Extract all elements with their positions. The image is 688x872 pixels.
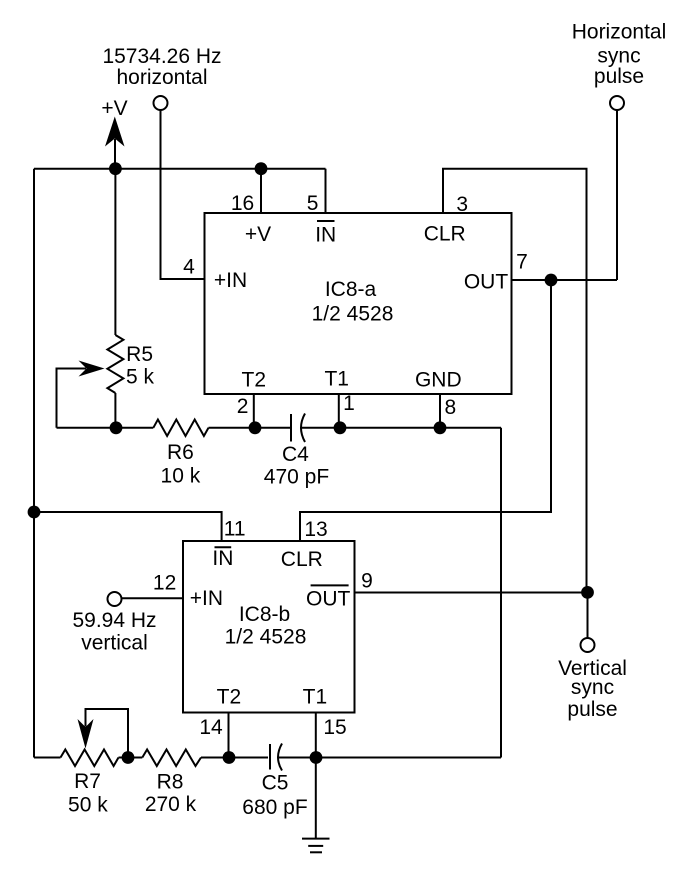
- svg-text:R8: R8: [157, 770, 184, 793]
- R7 wiper arrow: [78, 709, 129, 758]
- junction: pin 8: [434, 421, 447, 434]
- IC IC8-b: 1/2 4528 monostable: [183, 541, 355, 713]
- wire: pin 15 drop: [315, 713, 317, 758]
- resistor R5 (potentiometer): [107, 169, 123, 428]
- svg-text:4: 4: [183, 256, 195, 279]
- junction: pin 14: [223, 751, 236, 764]
- svg-text:1/2 4528: 1/2 4528: [312, 303, 394, 326]
- wire: horizontal input to pin 4: [161, 110, 204, 279]
- svg-text:GND: GND: [415, 368, 462, 391]
- svg-text:C5: C5: [262, 772, 289, 795]
- wire: +V rail: [34, 168, 326, 170]
- junction: pin 2: [249, 421, 262, 434]
- svg-text:Horizontal: Horizontal: [572, 21, 667, 44]
- wire: OUT pin 7 to horizontal sync: [512, 110, 618, 281]
- svg-text:sync: sync: [571, 676, 614, 699]
- svg-text:IC8-a: IC8-a: [325, 278, 377, 301]
- svg-text:IN: IN: [315, 224, 336, 247]
- svg-text:CLR: CLR: [281, 548, 323, 571]
- node: horizontal sync pulse label: [572, 21, 667, 89]
- wire: pin 5 drop: [325, 169, 327, 214]
- wire: timing net (T2/T1/GND row): [57, 428, 502, 758]
- svg-text:IC8-b: IC8-b: [239, 603, 290, 626]
- svg-text:vertical: vertical: [81, 632, 148, 655]
- svg-text:+V: +V: [101, 97, 127, 120]
- svg-text:9: 9: [361, 570, 373, 593]
- junction: OUT pin 7: [545, 274, 558, 287]
- svg-text:3: 3: [456, 193, 468, 216]
- svg-text:pulse: pulse: [594, 65, 644, 88]
- power +V symbol: [101, 97, 127, 169]
- svg-text:7: 7: [516, 250, 528, 273]
- svg-text:5: 5: [307, 192, 319, 215]
- junction: +V rail / pin 16: [255, 162, 268, 175]
- svg-text:horizontal: horizontal: [116, 66, 207, 89]
- svg-text:+V: +V: [245, 223, 271, 246]
- svg-text:10 k: 10 k: [161, 465, 201, 488]
- junction: pin 15: [310, 751, 323, 764]
- wire: vertical input to pin 12: [121, 597, 183, 599]
- junction: pin 1: [334, 421, 347, 434]
- terminal: horizontal sync pulse: [610, 96, 624, 110]
- svg-text:OUT: OUT: [464, 271, 509, 294]
- wire: bottom timing net: [34, 757, 501, 759]
- wire: left vertical bus: [33, 169, 35, 758]
- node: horizontal input label: [102, 45, 221, 89]
- wire: pin 14 drop: [228, 713, 230, 758]
- R5 value labels: [126, 343, 155, 389]
- svg-text:2: 2: [237, 395, 249, 418]
- svg-text:59.94 Hz: 59.94 Hz: [72, 609, 156, 632]
- ground: [302, 758, 330, 853]
- wire: pin 2 drop: [253, 394, 255, 428]
- svg-text:R7: R7: [74, 770, 101, 793]
- capacitor C5: [270, 744, 282, 771]
- wire: junction to vertical sync terminal: [587, 592, 589, 638]
- svg-text:C4: C4: [282, 443, 309, 466]
- terminal: 15734.26 Hz horizontal input: [154, 96, 168, 110]
- svg-text:R6: R6: [167, 441, 194, 464]
- svg-text:T2: T2: [217, 685, 242, 708]
- resistor R8: [142, 750, 201, 767]
- wire: pin 8 GND drop: [439, 394, 441, 428]
- junction: +V rail / R5: [109, 162, 122, 175]
- junction: R7 wiper: [122, 751, 135, 764]
- node: vertical sync pulse label: [558, 657, 627, 721]
- terminal: vertical sync pulse: [581, 638, 595, 652]
- wire: OUT pin 9 to vertical sync: [355, 592, 588, 594]
- svg-text:+IN: +IN: [214, 269, 247, 292]
- svg-text:12: 12: [153, 572, 176, 595]
- wire: left bus to IC8-b pin 11: [34, 512, 222, 542]
- svg-text:680 pF: 680 pF: [242, 796, 307, 819]
- svg-text:16: 16: [231, 192, 254, 215]
- svg-text:1/2 4528: 1/2 4528: [225, 626, 307, 649]
- svg-text:11: 11: [224, 518, 246, 541]
- wire: pin 16 drop: [260, 169, 262, 214]
- R5 wiper arrow: [57, 361, 105, 428]
- svg-text:T1: T1: [303, 685, 328, 708]
- svg-text:R5: R5: [126, 343, 153, 366]
- C4 value labels: [264, 443, 329, 489]
- resistor R6: [153, 420, 208, 437]
- svg-text:5 k: 5 k: [126, 366, 155, 389]
- svg-text:470 pF: 470 pF: [264, 466, 329, 489]
- svg-text:CLR: CLR: [424, 222, 466, 245]
- capacitor C4: [291, 414, 305, 443]
- junction: left bus / pin 11: [28, 506, 41, 519]
- wire: pin 3 CLR to right bus: [443, 169, 587, 593]
- C5 value labels: [242, 772, 307, 820]
- svg-text:50 k: 50 k: [68, 793, 108, 816]
- svg-text:OUT: OUT: [306, 588, 351, 611]
- IC IC8-a: 1/2 4528 monostable: [205, 213, 512, 394]
- svg-text:270 k: 270 k: [145, 793, 197, 816]
- resistor R7 (potentiometer): [61, 750, 119, 767]
- svg-text:IN: IN: [212, 547, 233, 570]
- R7 value labels: [68, 770, 108, 816]
- svg-text:15734.26 Hz: 15734.26 Hz: [102, 45, 221, 68]
- R6 value labels: [161, 441, 201, 488]
- junction: R5 bottom: [110, 421, 123, 434]
- svg-text:1: 1: [343, 392, 355, 415]
- svg-text:T1: T1: [324, 368, 349, 391]
- svg-text:14: 14: [199, 716, 223, 739]
- svg-text:+IN: +IN: [190, 587, 223, 610]
- svg-text:8: 8: [444, 396, 456, 419]
- svg-text:13: 13: [304, 518, 327, 541]
- wire: pin 7 to IC8-b pin 13: [300, 280, 551, 542]
- terminal: 59.94 Hz vertical input: [108, 592, 122, 606]
- R8 value labels: [145, 770, 197, 816]
- svg-text:T2: T2: [242, 369, 267, 392]
- wire: pin 1 drop: [338, 394, 340, 428]
- svg-text:15: 15: [323, 716, 346, 739]
- svg-text:pulse: pulse: [567, 698, 617, 721]
- junction: pin 9 / right bus: [581, 586, 594, 599]
- node: vertical input label: [72, 609, 156, 655]
